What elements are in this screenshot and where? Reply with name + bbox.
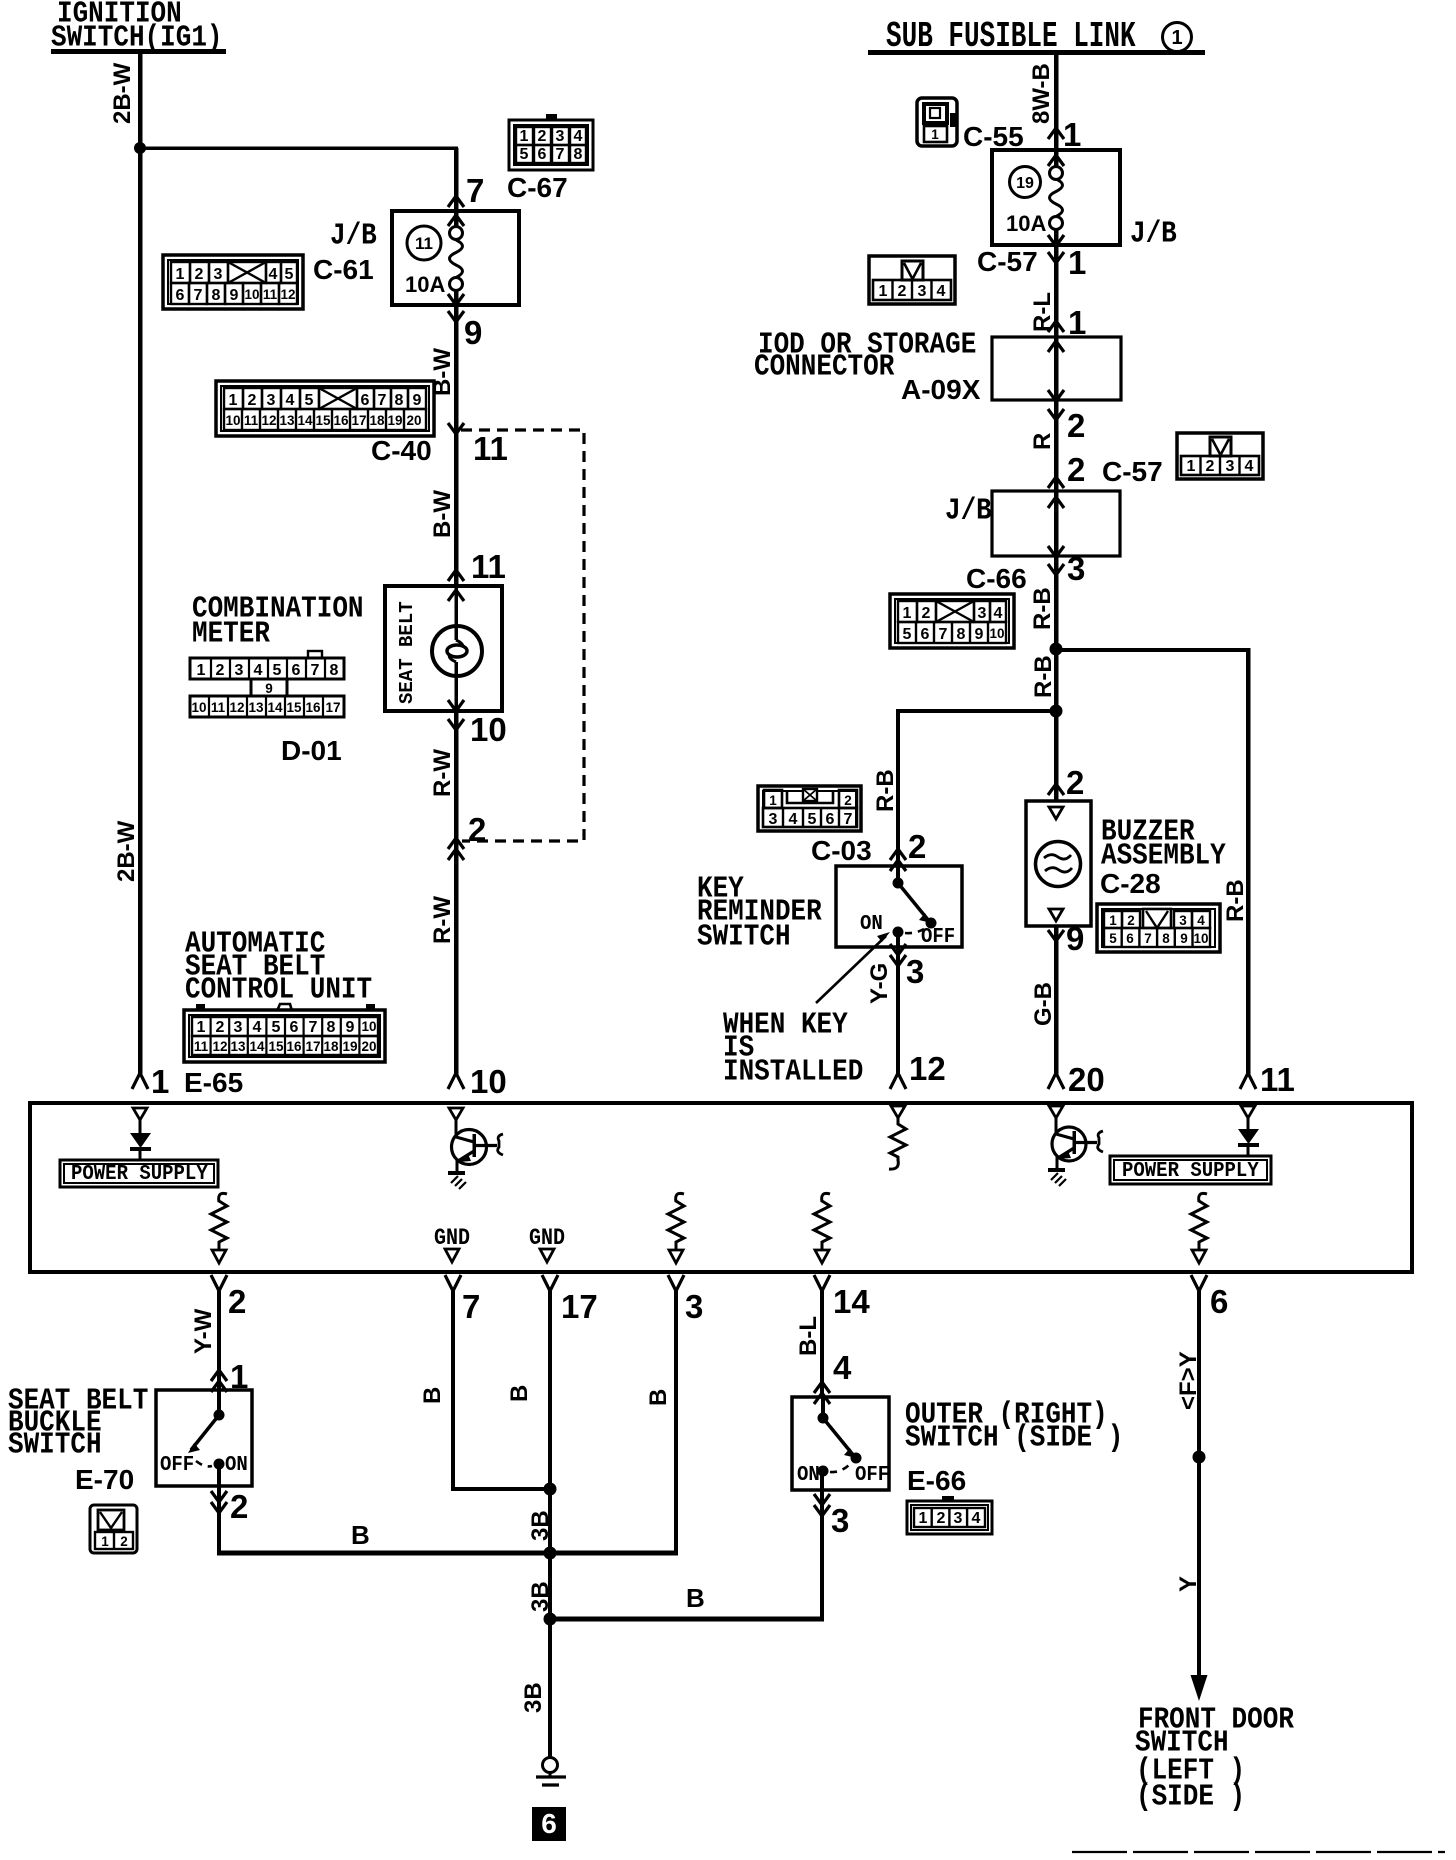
wire branch right to diode column [1056, 648, 1251, 1074]
buzzer assembly box [1026, 801, 1091, 926]
svg-text:6: 6 [1210, 1283, 1228, 1320]
svg-text:15: 15 [286, 700, 302, 715]
pin 7 label (below box) [462, 1288, 480, 1325]
junction block J/B (fuse 11) box [392, 211, 519, 305]
svg-text:METER: METER [192, 617, 270, 651]
svg-text:10: 10 [361, 1019, 376, 1034]
svg-text:R: R [1029, 433, 1056, 450]
svg-text:B: B [419, 1387, 446, 1404]
pin 11 label (control unit right) [1260, 1061, 1295, 1098]
pin 1 label (buckle switch) [230, 1358, 248, 1395]
buzzer assembly label [1101, 815, 1226, 873]
svg-text:C-57: C-57 [1102, 456, 1163, 487]
wire label B (buckle run) [351, 1520, 370, 1550]
ignition switch (IG1) title [51, 0, 226, 55]
svg-text:8: 8 [330, 662, 339, 679]
when key is installed note [723, 1008, 863, 1089]
connector C-67 icon [509, 114, 593, 170]
svg-text:3B: 3B [527, 1581, 554, 1612]
junction block J/B (fuse 19) box [992, 150, 1120, 245]
outer switch box [792, 1397, 889, 1490]
svg-text:3: 3 [556, 128, 565, 145]
svg-text:2: 2 [120, 1534, 128, 1549]
svg-text:14: 14 [249, 1039, 265, 1054]
svg-text:10: 10 [225, 413, 240, 428]
automatic seat belt control unit outline box [30, 1103, 1412, 1272]
pin 14 label (below box) [833, 1283, 870, 1320]
connector C-28 icon [1097, 904, 1220, 952]
connector E-70 icon [90, 1505, 137, 1553]
resistor R5 (pin 6) [1191, 1193, 1207, 1263]
pin 9 label (buzzer exit) [1066, 920, 1084, 957]
resistor R3 (pin 14) [814, 1193, 830, 1263]
dashed harness link C-40 to D-01 [461, 430, 584, 841]
wire label 8W-B [1028, 63, 1055, 124]
svg-text:9: 9 [1066, 920, 1084, 957]
svg-text:2: 2 [1066, 764, 1084, 801]
pin 7 fork below control unit [445, 1275, 461, 1291]
svg-text:10: 10 [989, 626, 1004, 641]
resistor R1 (pin 2) [211, 1193, 227, 1263]
svg-text:9: 9 [230, 287, 239, 304]
pin 11 label (combination meter) [471, 548, 506, 585]
outer switch label [905, 1398, 1123, 1455]
svg-text:4: 4 [937, 283, 946, 300]
svg-text:2: 2 [230, 1488, 248, 1525]
svg-text:(SIDE ): (SIDE ) [1136, 1780, 1245, 1814]
svg-text:5: 5 [903, 626, 912, 643]
combination meter label [192, 592, 364, 651]
seat belt buckle switch box [156, 1390, 252, 1486]
svg-text:2: 2 [248, 392, 257, 409]
svg-text:1: 1 [879, 283, 888, 300]
fuse rating 10A [405, 272, 445, 297]
wire B vertical (pin 17 ground run) [548, 1291, 552, 1758]
svg-text:CONNECTOR: CONNECTOR [754, 350, 894, 384]
fuse 11 circled number [407, 226, 441, 260]
svg-text:ON: ON [860, 912, 883, 936]
IOD or storage connector label [754, 328, 976, 384]
svg-text:8: 8 [327, 1019, 336, 1036]
pin 1 label (C-57 exit) [1068, 244, 1086, 281]
svg-text:C-55: C-55 [963, 121, 1024, 152]
transistor Q1 (pin 10) [448, 1108, 503, 1189]
ground GND (pin 17) [529, 1226, 565, 1262]
svg-text:15: 15 [315, 413, 331, 428]
connector C-03 icon [758, 786, 861, 831]
svg-text:2: 2 [1127, 913, 1135, 928]
junction node (branch to J/B fuse 11) [134, 142, 146, 154]
pin 20 fork into control unit [1048, 1073, 1064, 1089]
key reminder switch contacts and arm [893, 866, 937, 947]
svg-text:5: 5 [285, 266, 294, 283]
svg-text:B: B [686, 1583, 705, 1613]
svg-text:2: 2 [195, 266, 204, 283]
front door switch label [1135, 1703, 1294, 1814]
junction node (branch to key reminder switch) [1050, 705, 1063, 718]
svg-text:18: 18 [369, 413, 385, 428]
svg-text:3: 3 [831, 1502, 849, 1539]
svg-text:OFF: OFF [855, 1463, 889, 1487]
page reference 6 marker [532, 1807, 566, 1841]
connector label C-66 [966, 563, 1027, 594]
IOD or storage connector box A-09X [992, 337, 1121, 400]
svg-text:4: 4 [1245, 458, 1254, 475]
svg-text:11: 11 [211, 700, 226, 715]
diode D1 (pin 1 power supply) [130, 1108, 151, 1160]
svg-text:2B-W: 2B-W [109, 62, 136, 124]
svg-text:1: 1 [101, 1534, 109, 1549]
svg-text:3: 3 [234, 1019, 243, 1036]
svg-text:6: 6 [921, 626, 930, 643]
connector C-66 icon [890, 594, 1014, 648]
svg-text:9: 9 [413, 392, 422, 409]
svg-text:1: 1 [151, 1063, 169, 1100]
svg-text:12: 12 [280, 287, 295, 302]
label ON (outer switch) [797, 1463, 820, 1487]
combination meter seat belt lamp box [385, 586, 502, 711]
svg-text:SEAT BELT: SEAT BELT [396, 601, 418, 704]
pin 17 label (below box) [561, 1288, 598, 1325]
wire label 2B-W (upper) [109, 62, 136, 124]
note pointer arrow [816, 932, 890, 1003]
svg-text:17: 17 [351, 413, 366, 428]
svg-text:6: 6 [541, 1808, 557, 1839]
svg-text:16: 16 [305, 700, 321, 715]
svg-text:7: 7 [462, 1288, 480, 1325]
wire R-W vertical [454, 711, 459, 1074]
svg-text:19: 19 [342, 1039, 357, 1054]
pin 7 label [466, 172, 484, 209]
svg-text:7: 7 [311, 662, 320, 679]
pin 11 label (C-40) [473, 430, 508, 467]
svg-text:1: 1 [197, 1019, 206, 1036]
svg-text:15: 15 [268, 1039, 284, 1054]
pin 1 label (C-55) [1063, 116, 1081, 153]
pin 6 label (below box) [1210, 1283, 1228, 1320]
svg-text:Y: Y [1175, 1576, 1202, 1592]
svg-text:1: 1 [1063, 116, 1081, 153]
pin 9 arrow (buzzer exit) [1048, 930, 1064, 941]
connector label E-66 [907, 1465, 966, 1496]
wire Y-W vertical (pin 2 to buckle switch) [217, 1291, 221, 1415]
svg-text:2: 2 [216, 1019, 225, 1036]
pin 11 connector arrows (meter entry) [448, 570, 464, 601]
svg-text:1: 1 [1068, 244, 1086, 281]
wire label (F)Y [1175, 1351, 1202, 1410]
svg-text:1: 1 [520, 128, 529, 145]
svg-text:1: 1 [769, 793, 777, 808]
svg-text:INSTALLED: INSTALLED [723, 1055, 863, 1089]
key reminder switch box [836, 866, 962, 947]
svg-text:1: 1 [903, 605, 912, 622]
fuse rating 10A (right) [1006, 211, 1046, 236]
wire label 2B-W (lower) [113, 820, 140, 882]
page edge dashed line [1072, 1851, 1445, 1853]
svg-text:10: 10 [244, 287, 259, 302]
connector E-65 icon [184, 1004, 385, 1062]
svg-text:4: 4 [972, 1510, 981, 1527]
svg-text:2: 2 [844, 793, 852, 808]
svg-text:2: 2 [1067, 407, 1085, 444]
svg-text:4: 4 [1197, 913, 1205, 928]
svg-text:Y-W: Y-W [190, 1308, 217, 1354]
seat belt buckle switch label [8, 1384, 148, 1462]
svg-text:2: 2 [937, 1510, 946, 1527]
wire B from buckle switch [217, 1486, 678, 1556]
wire label R-L [1029, 292, 1056, 332]
wire B-W vertical (fuse column upper) [454, 148, 459, 234]
svg-text:20: 20 [361, 1039, 376, 1054]
svg-text:14: 14 [297, 413, 313, 428]
svg-text:16: 16 [286, 1039, 302, 1054]
ground GND (pin 7) [434, 1226, 470, 1262]
svg-text:6: 6 [176, 287, 185, 304]
svg-text:5: 5 [1109, 931, 1117, 946]
svg-text:R-B: R-B [872, 769, 899, 812]
label ON (buckle switch) [225, 1453, 248, 1477]
svg-text:SWITCH (SIDE ): SWITCH (SIDE ) [905, 1421, 1123, 1455]
double arrow at pin 2 [448, 838, 464, 860]
svg-text:10A: 10A [1006, 211, 1046, 236]
splice node on front door wire [1193, 1451, 1206, 1464]
pin 3 double arrows (outer switch exit) [814, 1494, 830, 1516]
pin 3 label (key reminder exit) [906, 953, 924, 990]
svg-text:14: 14 [833, 1283, 870, 1320]
resistor R4 (pin 12, top mounted) [889, 1106, 906, 1169]
pin 6 fork below control unit [1191, 1275, 1207, 1291]
wire label B (outer switch run) [686, 1583, 705, 1613]
connector E-66 icon [907, 1496, 992, 1534]
pin 1 label (E-65) [151, 1063, 169, 1100]
wire label R-W (upper) [429, 749, 456, 797]
pin 2 label (key reminder) [908, 828, 926, 865]
svg-text:3: 3 [906, 953, 924, 990]
svg-text:10: 10 [191, 700, 206, 715]
svg-text:11: 11 [415, 234, 433, 253]
wire R-L vertical [1054, 229, 1059, 337]
label J/B (right top) [1130, 217, 1177, 251]
wire B vertical (pin 3) [674, 1291, 678, 1554]
svg-text:J/B: J/B [1130, 217, 1177, 251]
pin 17 fork below control unit [542, 1275, 558, 1291]
svg-text:1: 1 [176, 266, 185, 283]
connector C-57 icon (first) [869, 256, 955, 304]
svg-text:7: 7 [466, 172, 484, 209]
svg-text:9: 9 [346, 1019, 355, 1036]
wire label B (pin 3 run) [645, 1389, 672, 1406]
svg-text:2: 2 [1206, 458, 1215, 475]
svg-text:R-B: R-B [1030, 655, 1057, 698]
svg-text:20: 20 [1068, 1061, 1105, 1098]
svg-text:2: 2 [538, 128, 547, 145]
wire G-B vertical [1054, 926, 1059, 1074]
wire label B (pin 7 run) [419, 1387, 446, 1404]
svg-text:5: 5 [808, 811, 817, 828]
connector C-40 icon [216, 381, 434, 436]
svg-text:J/B: J/B [945, 494, 992, 528]
svg-text:B: B [645, 1389, 672, 1406]
pin 3 label (C-66) [1067, 550, 1085, 587]
wire label 3B (third) [520, 1682, 547, 1713]
pin 2 arrow (buzzer entry) [1048, 784, 1064, 795]
pin 10 connector arrows (meter exit) [448, 700, 464, 730]
svg-text:11: 11 [194, 1039, 209, 1054]
svg-text:C-67: C-67 [507, 172, 568, 203]
wire through lamp box [449, 586, 463, 711]
svg-text:2B-W: 2B-W [113, 820, 140, 882]
pin 2 fork below control unit [211, 1275, 227, 1291]
svg-text:1: 1 [1187, 458, 1196, 475]
svg-text:3: 3 [978, 605, 987, 622]
svg-text:2: 2 [228, 1283, 246, 1320]
arrow to front door switch [1191, 1675, 1208, 1701]
svg-text:4: 4 [286, 392, 295, 409]
svg-text:J/B: J/B [330, 219, 377, 253]
junction block J/B (lower) box [992, 491, 1120, 556]
fuse 19 circled number [1010, 167, 1041, 198]
svg-text:11: 11 [263, 287, 278, 302]
key reminder switch label [697, 872, 822, 954]
connector label C-67 [507, 172, 568, 203]
svg-text:8: 8 [395, 392, 404, 409]
svg-text:12: 12 [212, 1039, 227, 1054]
pin 3 label (below box) [685, 1288, 703, 1325]
pin 11 fork into control unit [1240, 1073, 1256, 1089]
junction node (pin 7 join) [544, 1483, 557, 1496]
wire label R-B (third) [872, 769, 899, 812]
svg-text:OFF: OFF [160, 1453, 194, 1477]
wire F-Y vertical (pin 6 front door) [1197, 1291, 1201, 1681]
wire label R-B (first) [1029, 587, 1056, 630]
wire B-L vertical (pin 14) [820, 1291, 824, 1397]
connector label E-65 [184, 1067, 243, 1098]
resistor R2 (pin 3) [668, 1193, 684, 1263]
svg-text:4: 4 [789, 811, 798, 828]
svg-text:4: 4 [574, 128, 583, 145]
svg-text:16: 16 [333, 413, 349, 428]
svg-text:G-B: G-B [1030, 982, 1057, 1026]
svg-text:1: 1 [229, 392, 238, 409]
label J/B (right lower) [945, 494, 992, 528]
label J/B (left) [330, 219, 377, 253]
wire label R-W (lower) [429, 896, 456, 944]
svg-text:R-W: R-W [429, 749, 456, 797]
svg-text:10A: 10A [405, 272, 445, 297]
buckle switch contacts and arm [188, 1390, 225, 1486]
pin 1 double arrows (buckle switch entry) [211, 1370, 227, 1392]
wire branch left to key reminder switch [896, 709, 1056, 866]
pin 2 label (below box) [228, 1283, 246, 1320]
svg-text:5: 5 [305, 392, 314, 409]
connector D-01 icon [190, 651, 344, 717]
junction node (outer switch run join) [544, 1613, 557, 1626]
pin 7 connector arrows [448, 196, 464, 226]
svg-text:<F>Y: <F>Y [1175, 1351, 1202, 1410]
power supply block (right) [1110, 1156, 1271, 1184]
svg-text:7: 7 [556, 146, 565, 163]
seat belt warning lamp [432, 626, 482, 676]
pin 3 exit arrows (J/B lower) [1048, 546, 1064, 575]
svg-text:11: 11 [1260, 1061, 1295, 1098]
svg-text:C-66: C-66 [966, 563, 1027, 594]
svg-text:11: 11 [473, 430, 508, 467]
svg-text:13: 13 [248, 700, 264, 715]
svg-text:6: 6 [538, 146, 547, 163]
svg-text:3: 3 [1067, 550, 1085, 587]
svg-text:B-L: B-L [795, 1316, 822, 1356]
svg-text:CONTROL UNIT: CONTROL UNIT [185, 973, 372, 1007]
connector C-61 icon [163, 255, 303, 309]
svg-text:7: 7 [309, 1019, 318, 1036]
svg-text:POWER SUPPLY: POWER SUPPLY [71, 1162, 208, 1186]
pin 3 label (outer switch exit) [831, 1502, 849, 1539]
svg-text:3: 3 [918, 283, 927, 300]
svg-text:8: 8 [957, 626, 966, 643]
pin 1 fork into control unit [132, 1073, 148, 1089]
svg-text:3: 3 [214, 266, 223, 283]
automatic seat belt control unit label [185, 927, 372, 1007]
svg-text:C-57: C-57 [977, 246, 1038, 277]
transistor Q2 (pin 20) [1048, 1106, 1103, 1186]
connector label C-40 [371, 435, 432, 466]
pin 4 double arrows (outer switch entry) [814, 1382, 830, 1404]
svg-text:4: 4 [269, 266, 278, 283]
pin 2 exit arrows (A-09X) [1048, 390, 1064, 420]
pin 4 label (outer switch) [833, 1349, 852, 1386]
svg-text:4: 4 [253, 1019, 262, 1036]
svg-text:4: 4 [994, 605, 1003, 622]
svg-text:8: 8 [574, 146, 583, 163]
svg-text:18: 18 [323, 1039, 339, 1054]
svg-text:6: 6 [290, 1019, 299, 1036]
body ground symbol [536, 1758, 566, 1786]
pin arrows (J/B lower entry) [1048, 477, 1064, 508]
wire branch horizontal to fuse column [140, 147, 458, 151]
pin 2 label (buzzer) [1066, 764, 1084, 801]
outer switch contacts and arm [818, 1397, 862, 1477]
svg-text:R-B: R-B [1029, 587, 1056, 630]
svg-text:9: 9 [975, 626, 984, 643]
pin 9 label [464, 314, 482, 351]
label OFF (key reminder) [921, 925, 955, 949]
svg-text:1: 1 [931, 127, 939, 142]
svg-text:6: 6 [826, 811, 835, 828]
svg-text:E-66: E-66 [907, 1465, 966, 1496]
label OFF (buckle switch) [160, 1453, 194, 1477]
svg-text:12: 12 [229, 700, 244, 715]
pin 11 connector arrow (C-40) [448, 423, 464, 434]
wire label 3B (second) [527, 1581, 554, 1612]
pin 20 label [1068, 1061, 1105, 1098]
svg-text:9: 9 [265, 681, 273, 696]
pin 2 double arrows (buckle switch exit) [211, 1491, 227, 1513]
buzzer internal arrows and sounder [1036, 807, 1081, 921]
svg-text:17: 17 [561, 1288, 598, 1325]
wire label G-B [1030, 982, 1057, 1026]
wire label Y-W [190, 1308, 217, 1354]
pin 2 label (D-01 dashed link) [468, 811, 486, 848]
svg-text:6: 6 [292, 662, 301, 679]
sub fusible link title [868, 17, 1205, 57]
pin 10 fork into control unit [448, 1073, 464, 1089]
svg-text:13: 13 [279, 413, 295, 428]
svg-text:C-40: C-40 [371, 435, 432, 466]
pin 9 connector arrows [448, 294, 464, 322]
svg-text:3: 3 [1226, 458, 1235, 475]
svg-text:7: 7 [1144, 931, 1152, 946]
wire label B-W (lower) [429, 490, 456, 538]
